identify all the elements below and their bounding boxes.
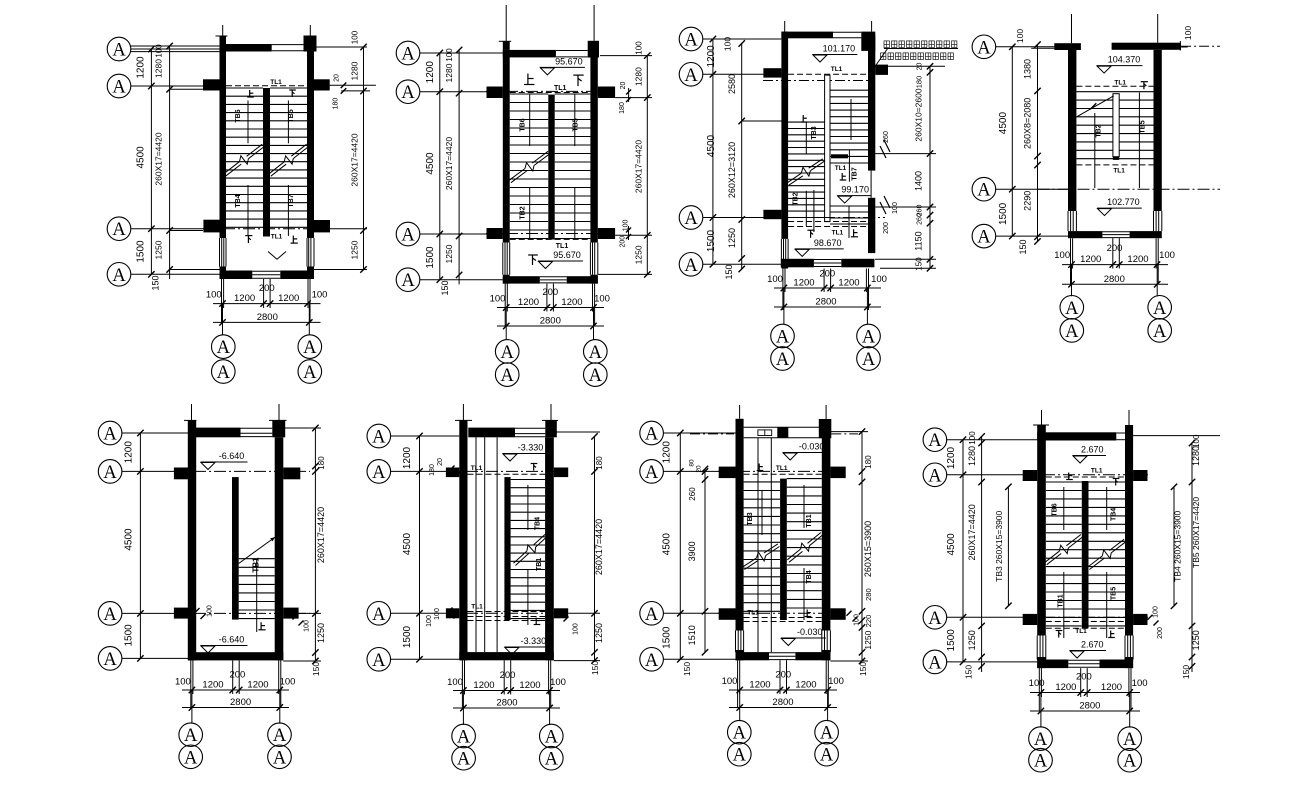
svg-text:1500: 1500 [946,629,957,652]
svg-text:1200: 1200 [518,297,539,308]
extension bottom right panel6 [554,660,600,662]
treads left flight panel3 [788,121,825,123]
left wall bottom seg panel7 [736,650,744,660]
extension lines below wall panel6 [461,660,463,708]
svg-text:2800: 2800 [1079,701,1100,712]
svg-text:200: 200 [542,287,558,298]
beam dashed low1 panel8 [1046,621,1125,623]
svg-text:A: A [217,363,231,383]
bottom dim line 2 panel2 [497,325,604,327]
window frame top panel7 [758,430,772,436]
svg-text:TL1: TL1 [832,230,844,237]
side column row3 right panel7 [830,608,845,620]
glyph xia top panel2 [573,75,583,86]
left wall panel1 [220,44,227,238]
bottom wall right segment panel2 [567,276,598,283]
grid bubble A row3 panel5 [98,602,122,626]
svg-text:99.170: 99.170 [841,185,869,195]
bottom bubble stem left panel7 [739,690,741,721]
svg-text:20: 20 [334,74,341,82]
svg-text:1250: 1250 [727,228,737,248]
svg-text:260X17=4420: 260X17=4420 [967,504,977,560]
svg-text:100: 100 [1183,26,1193,40]
svg-text:A: A [1034,752,1048,772]
grid leader row4 panel2 [420,279,503,281]
svg-text:A: A [401,45,415,65]
grid leader row2 panel1 [131,85,220,87]
divider wall panel5 [232,477,239,619]
top wall black segment panel7 [777,427,788,438]
svg-text:A: A [977,38,991,58]
beam dashed low2 panel7 [744,621,822,623]
divider wall panel2 [548,95,554,240]
bottom bubble A1 left panel5 [179,723,203,747]
svg-text:200: 200 [775,670,791,681]
extension lines below wall panel3 [782,269,784,311]
glyph shang landing panel1 [291,236,298,244]
grid leader row1 panel8 [946,439,1037,441]
beam TL1 low dashed panel4 [1076,164,1153,166]
beam dashed low1 panel7 [744,617,822,619]
dim chain left outer panel1 [150,49,152,274]
svg-text:A: A [589,343,603,363]
svg-text:TL1: TL1 [1113,167,1125,174]
interior vline 1 panel6 [475,437,477,652]
svg-text:A: A [303,363,317,383]
svg-text:150: 150 [1018,239,1028,254]
svg-text:200: 200 [229,670,245,681]
svg-text:1200: 1200 [519,680,540,691]
svg-text:200: 200 [259,283,275,294]
svg-text:150: 150 [311,662,321,676]
svg-text:100: 100 [490,294,506,305]
top wall right segment panel4 [1112,43,1181,50]
bottom bubble A1 right panel7 [815,720,839,744]
svg-text:1200: 1200 [793,278,814,289]
svg-text:A: A [103,650,117,670]
svg-text:1150: 1150 [914,231,924,250]
centerline stub left panel5 [191,404,193,420]
grid leader row1 panel2 [420,52,503,54]
left wall panel2 [503,50,510,243]
bottom dim line 1 panel4 [1062,264,1168,266]
window bottom panel8 [1068,659,1099,661]
glyph shang top panel2 [524,74,534,85]
grid leader row1 panel1 [131,48,220,50]
svg-text:1500: 1500 [136,240,147,263]
svg-text:-0.030: -0.030 [797,627,823,637]
beam dashed low2 panel6 [468,616,546,618]
side column row3 left panel1 [203,220,225,233]
treads left flight panel1 [226,87,263,89]
beam TL1 top dashed panel1 [226,85,307,87]
svg-text:1500: 1500 [425,246,436,269]
walk line lower-right panel3 [848,206,850,238]
bottom wall left segment panel3 [781,259,814,268]
bottom wall left segment panel2 [503,276,540,283]
svg-text:200: 200 [1076,672,1092,683]
svg-text:1250: 1250 [594,623,604,643]
top wall corner panel8 [1125,425,1133,441]
left wall panel5 [188,420,196,660]
bottom bubble stem right panel1 [308,304,310,336]
extension lines below wall panel2 [504,284,506,326]
svg-text:200: 200 [1157,627,1164,639]
gridline row3 dashdot panel1 [203,228,330,230]
svg-text:A: A [103,463,117,483]
svg-text:A: A [645,463,659,483]
dim chain left outer panel4 [1011,47,1013,236]
grid bubble A row4 panel5 [98,647,122,671]
svg-text:100: 100 [1132,678,1148,689]
grid leader row3 panel2 [420,233,503,235]
mini 100 right panel6 [558,611,563,616]
window top panel8 [1116,432,1125,434]
left wall lower jamb panel2 [502,243,504,275]
grid leader row1 panel3 [703,38,782,40]
treads left flight panel2 [510,93,549,95]
grid bubble A row1 panel6 [367,424,391,448]
svg-text:A: A [457,728,471,748]
top wall corner panel6 [545,420,557,437]
svg-text:2800: 2800 [540,316,561,327]
svg-text:A: A [372,651,386,671]
grid bubble A row1 panel1 [107,37,131,61]
walk line lower-left panel1 [247,185,249,236]
svg-text:TB6: TB6 [1051,503,1058,516]
glyph shang landing panel8 [1108,631,1115,638]
svg-text:A: A [545,728,559,748]
svg-text:200: 200 [500,670,516,681]
grid bubble A row1 panel4 [972,35,996,59]
beam dashed low2 panel8 [1046,627,1125,629]
svg-text:1280: 1280 [967,446,977,466]
svg-text:A: A [501,343,515,363]
svg-text:2800: 2800 [257,312,278,323]
svg-text:100: 100 [871,274,887,285]
grid leader row4 panel8 [946,661,1037,663]
top wall panel8 [1037,432,1116,440]
grid leader row4 panel3 [703,263,782,265]
svg-text:2580: 2580 [727,74,737,94]
svg-text:100: 100 [206,290,222,301]
svg-text:3900: 3900 [687,541,697,561]
side column row2 left panel8 [1023,470,1037,481]
bottom dim line 1 panel1 [213,303,321,305]
svg-text:A: A [645,605,659,625]
grid bubble A row3 panel3 [679,206,703,230]
svg-text:A: A [401,83,415,103]
svg-text:150: 150 [590,661,600,675]
svg-text:1400: 1400 [914,171,924,191]
svg-text:TB5 260X17=4420: TB5 260X17=4420 [1191,497,1201,568]
left wall lower jamb panel8 [1036,636,1038,660]
grid leader row4 panel1 [131,273,220,275]
bottom wall panel5 [188,652,283,660]
svg-text:100: 100 [550,677,566,688]
svg-text:1200: 1200 [247,680,268,691]
side column row3 left panel6 [446,608,459,618]
svg-text:1280: 1280 [634,67,644,86]
svg-text:2800: 2800 [1104,274,1125,285]
svg-text:TL1: TL1 [835,165,847,172]
walk line right lower panel8 [1106,572,1108,638]
svg-text:1200: 1200 [662,441,673,464]
svg-text:4500: 4500 [662,533,673,556]
svg-text:1200: 1200 [473,680,494,691]
grid leader row2 panel7 [663,470,735,472]
svg-text:260X12=3120: 260X12=3120 [727,142,737,198]
interior vline 1 panel7 [757,438,759,652]
svg-text:A: A [273,726,287,746]
svg-text:1250: 1250 [349,240,359,259]
svg-text:4500: 4500 [706,134,717,157]
side column row3 left panel5 [174,608,188,619]
dim chain left inner panel4 [1037,45,1039,242]
walk line upper-left panel2 [529,94,531,146]
divider wall panel7 [780,479,787,620]
top wall face lines panel7 [744,426,822,428]
bottom bubble A1 right panel1 [298,335,322,359]
svg-text:-3.330: -3.330 [521,636,547,646]
svg-text:1200: 1200 [124,441,135,464]
right wall lower jamb panel8 [1124,636,1126,660]
grid bubble A row1 panel7 [640,421,664,445]
break line right flight panel1 [269,162,284,174]
right wall panel8 [1125,440,1133,636]
svg-text:180: 180 [317,456,326,470]
bottom bubble A2 left panel2 [495,363,519,387]
treads left flight panel7 [744,481,781,483]
extension row4 right panel2 [598,273,652,275]
bottom bubble A2 right panel6 [540,746,564,770]
glyph shang lower-right panel3 [851,229,858,237]
dim chain left outer panel2 [439,53,441,280]
svg-text:TB6: TB6 [520,118,527,131]
svg-text:100: 100 [722,676,738,687]
right wall lower jamb panel2 [589,243,591,275]
extension row3b right panel1 [314,269,367,271]
svg-text:A: A [862,350,876,370]
svg-text:260X17=4420: 260X17=4420 [594,519,604,575]
glyph shang lower panel7 [805,610,812,617]
bottom wall left segment panel4 [1068,231,1102,238]
left wall panel7 [736,419,744,631]
bottom bubble A2 left panel4 [1060,319,1084,343]
bottom wall left segment panel1 [220,271,253,280]
svg-text:1200: 1200 [706,45,717,68]
svg-text:A: A [589,366,603,386]
svg-text:TB3 260X15=3900: TB3 260X15=3900 [994,510,1004,581]
extension bottom right panel7 [830,660,868,662]
break line panel4 [1075,96,1114,118]
svg-text:100: 100 [1192,434,1201,448]
gridline row2 dashdot panel4 [1038,188,1221,190]
beam TL1 top dashed panel8 [1046,476,1125,478]
svg-text:260X10=2600: 260X10=2600 [914,88,924,141]
dim chain left outer panel8 [962,440,964,662]
break line left flight panel8 [1045,551,1059,562]
walk line right upper panel8 [1106,487,1108,530]
svg-text:150: 150 [682,662,692,676]
grid leader row3 panel7 [663,612,735,614]
glyph xia top panel4 [1141,82,1148,90]
svg-text:1280: 1280 [444,63,454,82]
grid bubble A row2 panel7 [640,460,664,484]
svg-text:TL1: TL1 [1114,80,1126,87]
dim chain right panel7 [861,432,863,661]
svg-text:A: A [820,746,834,766]
glyph shang top panel8 [1066,473,1073,480]
extension line row2 panel1 [170,88,203,90]
svg-text:A: A [501,366,515,386]
svg-text:A: A [1153,299,1167,319]
svg-text:TB2: TB2 [1095,124,1102,137]
svg-text:A: A [303,338,317,358]
svg-text:260: 260 [917,213,924,225]
svg-text:-0.030: -0.030 [799,442,825,452]
side column row3 left panel3 [763,210,781,219]
svg-text:100: 100 [447,677,463,688]
glyph shang top-left panel1 [247,90,254,97]
bottom dim line 2 panel3 [774,306,881,308]
right wall lower jamb panel7 [821,631,823,653]
svg-text:4500: 4500 [425,152,436,175]
svg-text:A: A [1123,730,1137,750]
gridline row3 dashdot panel5 [174,612,310,614]
grid bubble A row4 panel7 [640,648,664,672]
bottom bubble A1 left panel8 [1029,727,1053,751]
break line right flight panel6 [514,551,527,563]
svg-text:1250: 1250 [1191,630,1201,650]
dim chain left panel5 [139,433,141,658]
bottom bubble stem right panel8 [1129,693,1131,728]
dim chain left inner panel8 [981,437,983,673]
right wall panel4 [1154,50,1162,211]
treads left flight panel8 [1046,481,1082,483]
glyph xia top panel8 [1113,479,1120,486]
grid bubble A row2 panel3 [679,63,703,87]
annotation leader panel3 [869,48,888,75]
bottom wall right segment panel1 [280,271,314,280]
svg-text:TL1: TL1 [556,243,569,250]
grid bubble A row3 panel2 [396,222,420,246]
grid bubble A row3 panel8 [923,606,947,630]
bottom bubble A1 right panel8 [1118,727,1142,751]
extension top panel6 [554,431,600,433]
svg-text:A: A [1034,730,1048,750]
side column row2 right panel7 [830,467,845,479]
column cap top-left panel6 [455,419,472,421]
svg-text:A: A [684,209,698,229]
svg-text:A: A [112,220,126,240]
walk line right lower panel7 [803,568,805,620]
svg-text:TL1: TL1 [271,234,283,241]
grid leader row2 panel3 [703,73,782,75]
svg-text:1200: 1200 [1101,682,1122,693]
break line left flight panel2 [509,169,525,181]
beam TL1 top dashed panel4 [1076,85,1153,87]
right wall panel5 [275,437,284,660]
svg-text:150: 150 [151,275,161,290]
walk line upper-left panel3 [805,122,807,154]
mini dim 180-20 panel1 [327,84,376,86]
bottom bubble A1 right panel4 [1148,296,1172,320]
top wall panel5 [196,428,241,438]
bottom bubble A2 right panel7 [815,742,839,766]
centerline stub left panel7 [739,405,741,419]
svg-text:-6.640: -6.640 [219,451,245,461]
glyph xia landing panel3 [807,230,814,238]
svg-text:1280: 1280 [1191,446,1201,466]
bottom bubble stem left panel5 [191,690,193,724]
svg-text:100: 100 [304,620,311,632]
gridline row2 dashdot panel6 [446,470,568,472]
extension lines below wall panel4 [1070,238,1072,284]
right wall panel1 [307,52,314,239]
dim chain right panel2 [646,56,648,275]
column cap top-left panel8 [1033,424,1049,426]
window bottom panel4 [1102,231,1129,233]
svg-text:TB6: TB6 [235,109,242,122]
grid bubble A row2 panel6 [367,460,391,484]
svg-text:100: 100 [434,608,441,620]
svg-text:A: A [112,266,126,286]
mini 100 right panel5 [293,615,298,620]
glyph xia landing panel1 [245,236,252,244]
grid leader row2 panel8 [946,474,1037,476]
stair arrow line panel5 [239,537,275,563]
svg-text:2800: 2800 [496,698,517,709]
bottom bubble A2 right panel2 [584,363,608,387]
right wall panel6 [545,437,554,660]
gridline top dashdot panel7 [690,433,734,435]
centerline stub right panel1 [309,25,311,36]
bottom bubble stem right panel4 [1156,265,1158,297]
bottom dim line 2 panel5 [182,707,289,709]
svg-text:A: A [372,463,386,483]
svg-text:TB5: TB5 [1139,120,1146,133]
svg-text:2800: 2800 [230,697,251,708]
svg-text:100: 100 [723,37,733,51]
centerline stub left panel3 [784,21,786,32]
grid bubble A row4 panel3 [679,252,703,276]
svg-text:A: A [862,328,876,348]
grid bubble A row3 panel7 [640,602,664,626]
centerline stub left panel6 [462,404,464,420]
bottom wall panel6 [459,652,554,660]
centerline stub left panel4 [1071,14,1073,43]
svg-text:100: 100 [175,677,191,688]
door swing chevron panel1 [268,252,286,260]
centerline stub right panel5 [278,404,280,420]
svg-text:2290: 2290 [1023,191,1033,211]
svg-text:A: A [928,653,942,673]
centerline stub right panel3 [871,21,873,32]
bottom bubble A1 left panel3 [771,324,795,348]
left wall bottom segment panel3 [781,261,788,269]
window bottom panel1 [252,270,280,272]
bottom bubble A2 right panel8 [1118,748,1142,772]
annotation line1 panel3 [884,41,889,48]
grid bubble A row4 panel8 [923,650,947,674]
svg-text:A: A [217,338,231,358]
centerline stub right panel2 [593,5,595,41]
svg-text:100: 100 [1015,29,1025,43]
svg-text:A: A [928,466,942,486]
bottom bubble stem left panel1 [222,304,224,336]
glyph xia landing panel2 [528,255,538,265]
